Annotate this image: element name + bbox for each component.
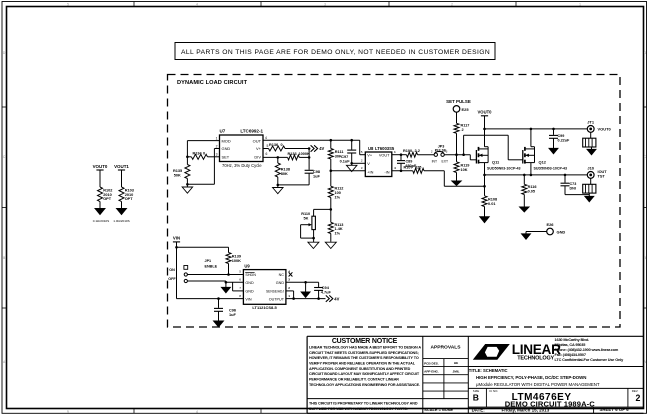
capacitor C99 (553, 129, 555, 135)
svg-text:C99: C99 (558, 134, 565, 138)
potentiometer R110 (312, 216, 316, 229)
svg-text:0.22uF: 0.22uF (558, 139, 571, 143)
node R135 bottom junction (186, 183, 189, 186)
wire R103 to ground (121, 202, 123, 209)
svg-text:4V: 4V (334, 296, 339, 301)
connector E26 GND (547, 228, 554, 235)
svg-text:4: 4 (196, 2, 198, 6)
wire VOUT0 to rail (484, 116, 486, 129)
wire VIN column (176, 242, 178, 299)
svg-text:4V: 4V (319, 146, 324, 151)
svg-text:1: 1 (394, 150, 396, 154)
node pot bottom junction (312, 237, 315, 240)
node gate riser junction (462, 153, 465, 156)
ground under C96 (214, 321, 224, 327)
wire E25 to R117 (456, 112, 458, 123)
svg-text:VOUT0: VOUT0 (93, 164, 108, 169)
svg-text:OUTPUT: OUTPUT (269, 297, 285, 301)
svg-text:2: 2 (361, 159, 363, 163)
wire C73 to pad ground (565, 194, 589, 196)
svg-text:EXT: EXT (442, 160, 449, 164)
node divider junction (330, 208, 333, 211)
wire U9 SENSE link (286, 290, 294, 292)
svg-text:OPT: OPT (125, 197, 134, 201)
ground at U9 right (305, 282, 307, 292)
svg-text:SET: SET (222, 154, 230, 159)
svg-text:THIS CIRCUIT IS PROPRIETARY TO: THIS CIRCUIT IS PROPRIETARY TO LINEAR TE… (309, 401, 418, 405)
svg-text:Phone: (408)432-1900 www.li: Phone: (408)432-1900 www.linear.com (555, 348, 619, 352)
resistor R107 (413, 168, 424, 173)
svg-text:1uF: 1uF (313, 175, 320, 179)
svg-text:OFF: OFF (168, 277, 176, 281)
svg-text:C94: C94 (322, 286, 330, 290)
svg-text:VOUT: VOUT (379, 153, 390, 157)
ground under C97 (351, 163, 353, 165)
resistor R139 (228, 247, 230, 252)
U9 NC no-connect X (289, 272, 293, 276)
ground under R103 (117, 209, 127, 215)
svg-text:SENSE/ADJ: SENSE/ADJ (266, 290, 284, 294)
svg-text:IOUT: IOUT (598, 170, 608, 174)
resistor R103 (119, 187, 124, 202)
capacitor C89 (400, 155, 402, 160)
wire divider to pot (314, 208, 331, 210)
jumper JP3 PULSE (434, 153, 437, 156)
svg-text:R138: R138 (281, 167, 291, 171)
svg-text:R134: R134 (193, 152, 203, 156)
svg-text:ENBLE: ENBLE (205, 264, 218, 268)
banner note box (175, 43, 495, 60)
svg-text:5: 5 (239, 270, 241, 274)
connector JT1 (587, 125, 594, 132)
svg-text:DIV: DIV (254, 154, 261, 159)
svg-text:LTC6992-1: LTC6992-1 (240, 129, 263, 134)
svg-text:1%: 1% (335, 195, 341, 199)
svg-text:SCALE = NONE: SCALE = NONE (424, 407, 453, 412)
net arrow 4V top (311, 145, 318, 151)
net arrow 4V bottom (326, 295, 333, 301)
svg-text:0: 0 (203, 152, 205, 156)
svg-text:50K: 50K (174, 174, 181, 178)
svg-text:R119: R119 (461, 163, 470, 167)
svg-text:GND: GND (222, 146, 231, 151)
wire C98 bottom to R138 ground (278, 184, 309, 186)
svg-text:JMIL: JMIL (452, 369, 459, 373)
svg-text:2.2: 2.2 (415, 149, 420, 153)
svg-text:HOWEVER, IT REMAINS THE CUSTOM: HOWEVER, IT REMAINS THE CUSTOMER'S RESPO… (309, 356, 419, 360)
svg-text:DNI: DNI (570, 187, 576, 191)
node rail C97 junction (350, 139, 353, 142)
svg-text:3: 3 (324, 2, 326, 6)
svg-text:2: 2 (635, 393, 640, 403)
wire R102 to ground (99, 202, 101, 209)
resistor R108 (482, 196, 487, 207)
svg-text:825: 825 (415, 165, 422, 169)
svg-text:GND: GND (245, 281, 254, 285)
svg-text:APP ENG.: APP ENG. (424, 370, 439, 374)
wire U9 OUTPUT to 4V (286, 298, 326, 300)
svg-text:LINEAR TECHNOLOGY HAS MADE A B: LINEAR TECHNOLOGY HAS MADE A BEST EFFORT… (309, 345, 421, 349)
svg-text:R116: R116 (528, 185, 537, 189)
svg-text:LT1121CS8-5: LT1121CS8-5 (252, 305, 277, 310)
wire R107 feedback to sense node (424, 170, 444, 172)
ground under R135 (186, 184, 188, 187)
svg-text:10K: 10K (461, 168, 468, 172)
wire pot to ground (313, 238, 315, 242)
wire R134 to U7 SET (208, 156, 220, 158)
svg-text:ON: ON (169, 268, 175, 272)
svg-text:VOUT0: VOUT0 (478, 110, 493, 115)
svg-text:R133: R133 (288, 152, 297, 156)
svg-text:70Hz, 3% Duty Cycle: 70Hz, 3% Duty Cycle (222, 163, 262, 168)
svg-text:6: 6 (266, 152, 268, 156)
wire U9 GND7 link (233, 290, 244, 292)
resistor R102 (98, 187, 103, 202)
wire Q11 source to R108 (484, 175, 486, 196)
node gate junction R117 (455, 153, 458, 156)
svg-text:VIN: VIN (245, 297, 252, 301)
svg-text:R107: R107 (404, 165, 413, 169)
svg-text:0.05: 0.05 (528, 190, 536, 194)
resistor R133 (288, 155, 300, 160)
svg-text:U7: U7 (220, 129, 226, 134)
capacitor C97 (351, 140, 353, 149)
wire source sense row (485, 174, 588, 176)
wire VOUT0 rail (485, 128, 588, 130)
svg-text:Q11: Q11 (492, 159, 500, 164)
svg-text:1000K: 1000K (299, 152, 311, 156)
svg-text:APPLICATION. COMPONENT SUBSTI: APPLICATION. COMPONENT SUBSTITUTION AND … (309, 367, 411, 371)
node sense Q12 junction (530, 174, 533, 177)
resistor R135 (186, 157, 188, 165)
dynamic load circuit dashed box (168, 75, 621, 328)
svg-text:7: 7 (239, 286, 241, 290)
svg-text:JT1: JT1 (587, 119, 595, 124)
svg-text:2: 2 (288, 286, 290, 290)
svg-text:VERIFY PROPER AND RELIABLE OPE: VERIFY PROPER AND RELIABLE OPERATION IN … (309, 361, 416, 365)
svg-text:GND: GND (557, 229, 566, 234)
svg-text:R135: R135 (173, 169, 183, 173)
wire R136 to 4V node (285, 148, 309, 150)
node sense C73 junction (564, 174, 567, 177)
node C89 top junction (400, 153, 403, 156)
connector J10 (587, 172, 594, 179)
ground under R116 (520, 207, 530, 212)
svg-text:1uF: 1uF (229, 313, 236, 317)
node rail C99 junction (552, 128, 555, 131)
svg-text:VOUT1: VOUT1 (114, 164, 129, 169)
node C97 ground junction (350, 162, 353, 165)
node R138 bottom junction (277, 184, 280, 187)
svg-text:DATE:: DATE: (472, 408, 486, 413)
svg-text:E26: E26 (546, 222, 554, 227)
node VIN junction (175, 246, 178, 249)
wire VIN to R139 (177, 246, 229, 248)
ground under J10 pads (588, 193, 590, 196)
svg-text:C73: C73 (570, 182, 577, 186)
node sense R116 junction (523, 174, 526, 177)
resistor R116 (523, 175, 525, 184)
svg-text:4.7uF: 4.7uF (321, 291, 332, 295)
svg-text:JP1: JP1 (205, 259, 212, 263)
node C89 bottom junction (400, 170, 403, 173)
svg-text:2: 2 (451, 2, 453, 6)
svg-text:OUT: OUT (253, 138, 262, 143)
svg-text:INT: INT (432, 160, 437, 164)
transistor Q12 (522, 150, 524, 164)
ground under R102 (95, 209, 105, 215)
wire U7 MOD to node (187, 140, 219, 142)
svg-text:C98: C98 (313, 170, 321, 174)
resistor R113 (330, 209, 332, 222)
resistor R111 (330, 140, 332, 148)
svg-text:V: V (367, 162, 370, 166)
jumper JP1 ENABLE (184, 266, 188, 270)
header pads under J10 (583, 184, 596, 193)
ground under R119 (452, 181, 462, 186)
svg-text:SUD50N03-10CP-43: SUD50N03-10CP-43 (487, 167, 521, 171)
ground under R138 (277, 185, 279, 188)
op-amp U9 box (243, 270, 286, 305)
node R134 junction (186, 156, 189, 159)
op-amp U7 LTC6992-1 box (220, 135, 264, 162)
wire R100 to JP3 (418, 154, 435, 156)
capacitor C94 (318, 282, 320, 287)
svg-text:U9: U9 (244, 264, 250, 269)
svg-text:0.1uF: 0.1uF (340, 160, 351, 164)
wire JT1 stem (590, 132, 592, 138)
resistor R134 (187, 156, 191, 158)
svg-text:0: 0 (281, 143, 283, 147)
svg-text:U8: U8 (368, 146, 374, 151)
svg-text:GND: GND (245, 290, 254, 294)
node sense Q11 junction (483, 174, 486, 177)
ground under R110 (308, 242, 319, 248)
wire U7 DIV lead (263, 156, 288, 158)
wire JP3 to gate node (444, 154, 470, 156)
svg-text:2: 2 (216, 145, 218, 149)
svg-text:Q12: Q12 (539, 159, 547, 164)
op-amp U8 box (365, 152, 392, 177)
transistor Q11 (475, 150, 477, 164)
svg-text:APPROVALS: APPROVALS (430, 345, 461, 351)
resistor R138 (277, 157, 279, 163)
svg-text:6: 6 (239, 278, 241, 282)
wire U9 VIN pin (177, 298, 244, 300)
svg-text:3: 3 (361, 166, 363, 170)
svg-text:R117: R117 (461, 124, 470, 128)
node JP1 ground junction (225, 281, 228, 284)
svg-text:Fax: (408)434-0507: Fax: (408)434-0507 (555, 353, 586, 357)
wire U8 VOUT lead (392, 154, 407, 156)
svg-text:TST: TST (598, 175, 606, 179)
node R138 tap junction (277, 156, 280, 159)
svg-text:3: 3 (288, 278, 290, 282)
wire VOUT0 to R102 (99, 170, 101, 187)
wire U7 OUT rail to U8 V+ (263, 139, 360, 141)
svg-text:ALL PARTS ON THIS PAGE ARE FOR: ALL PARTS ON THIS PAGE ARE FOR DEMO ONLY… (181, 49, 490, 56)
svg-text:V+: V+ (367, 153, 373, 157)
svg-text:5: 5 (67, 2, 69, 6)
node C94 bottom junction (317, 297, 320, 300)
svg-text:LT6003S5: LT6003S5 (375, 146, 395, 151)
svg-text:V+: V+ (256, 146, 262, 151)
svg-text:+IN: +IN (367, 171, 373, 175)
svg-text:SUPPLIED FOR USE WITH LINEAR T: SUPPLIED FOR USE WITH LINEAR TECHNOLOGY … (309, 407, 408, 411)
svg-text:E25: E25 (462, 107, 470, 112)
svg-text:GND: GND (276, 281, 285, 285)
svg-text:SHEET 6 OF 6: SHEET 6 OF 6 (600, 407, 630, 412)
node right ground junction (304, 281, 307, 284)
svg-text:1: 1 (216, 137, 218, 141)
capacitor C98 (305, 169, 314, 171)
node rail Q11 junction (483, 128, 486, 131)
svg-text:-IN: -IN (384, 171, 389, 175)
wire U9 GND right (286, 281, 319, 283)
node SHDN junction (227, 273, 230, 276)
wire U7 GND to ground bus (214, 148, 219, 150)
wire JP1 bottom to ground node (187, 280, 226, 282)
svg-text:R108: R108 (488, 198, 498, 202)
svg-text:Friday, March 15, 2013: Friday, March 15, 2013 (502, 408, 550, 413)
resistor R112 (330, 171, 332, 187)
wire R133 to C98 column (299, 156, 309, 158)
svg-text:SUD50N03-10CP-43: SUD50N03-10CP-43 (534, 167, 568, 171)
U9 pin names (245, 272, 254, 274)
wire VOUT1 to R103 (121, 170, 123, 187)
ground under C99 (549, 148, 558, 154)
node SENSE junction (292, 297, 295, 300)
svg-text:MOD: MOD (222, 138, 231, 143)
svg-text:B: B (3, 256, 5, 260)
node DIV junction (308, 156, 311, 159)
wire U8 V- to ground node (352, 162, 366, 164)
svg-text:4: 4 (394, 166, 396, 170)
wire U9 GND6 to ground (226, 281, 244, 283)
ground under R108 (480, 217, 490, 223)
capacitor C96 (218, 299, 220, 308)
svg-text:1: 1 (579, 2, 581, 6)
wire J10 stem (590, 178, 592, 184)
svg-text:R110: R110 (301, 212, 310, 216)
svg-text:2: 2 (462, 128, 464, 132)
zone tick marks (133, 2, 135, 7)
wire U7 V+ lead (263, 148, 269, 150)
svg-text:B: B (644, 256, 646, 260)
svg-text:IC NO.: IC NO. (489, 389, 498, 393)
svg-text:0.1Ω/2010S: 0.1Ω/2010S (93, 219, 110, 223)
svg-text:C97: C97 (341, 155, 348, 159)
ground under R113 (325, 242, 336, 248)
ground under JT1 pads (591, 147, 593, 149)
header pads under JT1 (583, 138, 596, 147)
svg-text:PERFORMANCE OR RELIABILITY.: PERFORMANCE OR RELIABILITY. CONTACT LINE… (309, 378, 399, 382)
svg-text:0.01: 0.01 (488, 202, 496, 206)
svg-text:R111: R111 (335, 150, 345, 154)
svg-text:5: 5 (361, 150, 363, 154)
ground at U9 left (225, 282, 227, 287)
svg-text:SET PULSE: SET PULSE (446, 99, 471, 104)
node rail Q12 junction (530, 128, 533, 131)
svg-text:C96: C96 (229, 308, 236, 312)
svg-text:Milpitas, CA 95035: Milpitas, CA 95035 (555, 343, 587, 347)
wire gate link to Q12 (463, 135, 465, 155)
svg-text:R136: R136 (269, 143, 278, 147)
svg-text:80K: 80K (281, 172, 288, 176)
wire U8 -IN lead (392, 170, 413, 172)
svg-text:VIN: VIN (173, 236, 180, 241)
resistor R136 (269, 146, 286, 151)
ground at E26 (522, 234, 531, 240)
node +IN junction (330, 169, 333, 172)
node C96 junction (217, 297, 220, 300)
svg-text:J10: J10 (587, 165, 594, 170)
svg-text:PCB DES.: PCB DES. (424, 361, 439, 365)
svg-text:R139: R139 (232, 255, 241, 259)
svg-text:3: 3 (216, 152, 218, 156)
svg-text:CIRCUIT THAT MEETS CUSTOMER-SU: CIRCUIT THAT MEETS CUSTOMER-SUPPLIED SPE… (309, 351, 419, 355)
svg-text:NC: NC (279, 273, 285, 277)
svg-text:μModule REGULATOR WITH DIGITAL: μModule REGULATOR WITH DIGITAL POWER MAN… (476, 382, 600, 387)
wire U8 +IN to divider (331, 170, 366, 172)
svg-text:DYNAMIC LOAD CIRCUIT: DYNAMIC LOAD CIRCUIT (177, 80, 248, 86)
node sense feedback junction (483, 185, 486, 188)
svg-text:TECHNOLOGY: TECHNOLOGY (517, 356, 554, 362)
svg-text:LTC Confidential-For Customer: LTC Confidential-For Customer Use Only (555, 358, 625, 362)
svg-text:100K: 100K (232, 259, 241, 263)
resistor R100 (407, 152, 418, 157)
capacitor C73 (564, 175, 566, 183)
svg-text:R100: R100 (403, 149, 412, 153)
svg-text:1%: 1% (335, 232, 341, 236)
wire JP1 to U9 SHDN (187, 274, 243, 276)
svg-text:HIGH EFFICIENCY, POLY-PHASE, D: HIGH EFFICIENCY, POLY-PHASE, DC/DC STEP-… (476, 375, 586, 380)
resistor R119 (456, 155, 458, 162)
svg-text:VOUT0: VOUT0 (598, 127, 612, 132)
svg-text:CIRCUIT BOARD LAYOUT MAY SIGNI: CIRCUIT BOARD LAYOUT MAY SIGNIFICANTLY A… (309, 372, 420, 376)
svg-text:4: 4 (265, 136, 267, 140)
svg-text:1: 1 (288, 294, 290, 298)
svg-text:TITLE: SCHEMATIC: TITLE: SCHEMATIC (469, 368, 508, 373)
resistor R117 (454, 123, 459, 133)
title block grid (306, 336, 308, 413)
svg-text:TECHNOLOGY APPLICATIONS ENGINE: TECHNOLOGY APPLICATIONS ENGINEERING FOR … (309, 383, 420, 387)
node rail R111 junction (330, 139, 333, 142)
svg-text:5K: 5K (304, 217, 309, 221)
svg-text:5: 5 (67, 410, 69, 414)
logo LT mark (473, 344, 510, 360)
svg-text:OPT: OPT (103, 197, 112, 201)
svg-text:SHDN: SHDN (245, 273, 256, 277)
node 4V junction (308, 147, 311, 150)
svg-text:CUSTOMER NOTICE: CUSTOMER NOTICE (332, 338, 398, 345)
svg-text:1.0Ω/2010S: 1.0Ω/2010S (113, 219, 130, 223)
svg-text:1630 McCarthy Blvd.: 1630 McCarthy Blvd. (555, 338, 590, 342)
svg-text:HE: HE (454, 361, 458, 365)
svg-text:B: B (473, 393, 479, 403)
svg-text:8: 8 (239, 294, 241, 298)
wire E26 to ground (526, 231, 547, 233)
